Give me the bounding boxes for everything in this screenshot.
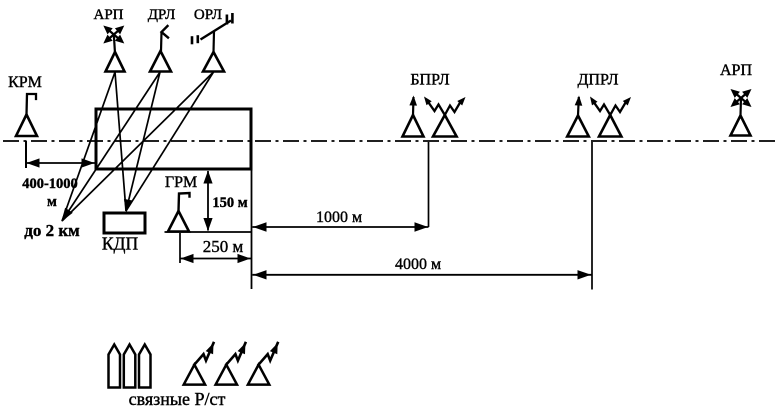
label АРП (left) [93, 7, 123, 23]
label 400-1000 [22, 176, 78, 192]
svg-text:связные Р/ст: связные Р/ст [129, 389, 226, 409]
DPRL radio station (triangle with zigzag arrows) [590, 97, 631, 137]
baseline under GRM [165, 231, 252, 233]
ORL radar antenna [192, 13, 232, 72]
svg-text:400-1000: 400-1000 [22, 176, 78, 192]
BPRL radio station (triangle with zigzag arrows) [424, 97, 466, 137]
svg-text:ОРЛ: ОРЛ [194, 7, 222, 23]
communication mast 3 [139, 345, 151, 388]
svg-text:КДП: КДП [102, 234, 139, 254]
label 150 м [212, 195, 247, 211]
GRM glide-path antenna [168, 193, 190, 232]
svg-text:4000 м: 4000 м [395, 256, 441, 273]
communication mast 2 [124, 345, 136, 388]
label ДРЛ [148, 7, 176, 23]
wire ОРЛ to КДП [126, 72, 214, 211]
arrowhead at КДП roof [124, 199, 133, 212]
dimension arrow 150 м [203, 171, 212, 232]
label до 2 км [24, 221, 80, 240]
label КРМ [8, 74, 42, 91]
svg-text:м: м [47, 194, 57, 210]
svg-text:БПРЛ: БПРЛ [410, 72, 449, 89]
svg-text:АРП: АРП [93, 7, 123, 23]
arrowhead at 2km point [62, 208, 73, 222]
dimension arrow 400-1000 м [26, 158, 95, 167]
svg-text:ДПРЛ: ДПРЛ [577, 72, 618, 89]
extension line below GRM [179, 233, 181, 263]
DPRL marker beacon (triangle with up arrow) [567, 96, 589, 137]
runway centerline (dash-dot) [3, 140, 775, 142]
label 250 м [203, 237, 244, 256]
DRL radar antenna [150, 26, 171, 72]
svg-text:КРМ: КРМ [8, 74, 42, 91]
label 4000 м [395, 256, 441, 273]
wire ДРЛ to 2km point [62, 72, 160, 221]
label связные Р/ст [129, 389, 226, 409]
label 1000 м [316, 209, 362, 226]
DPRL extension line [591, 142, 593, 290]
svg-text:ДРЛ: ДРЛ [148, 7, 176, 23]
legend radio station 1 [184, 343, 214, 385]
runway-end extension line [251, 169, 253, 289]
label ОРЛ [194, 7, 222, 23]
legend radio station 2 [216, 343, 246, 385]
label м (under 400-1000) [47, 194, 57, 210]
label АРП (right) [720, 62, 752, 79]
runway rectangle [96, 109, 251, 169]
legend radio station 3 [248, 343, 278, 385]
ARP direction-finder antenna (left) [103, 26, 124, 72]
label БПРЛ [410, 72, 449, 89]
ARP direction-finder antenna (right) [731, 89, 752, 136]
label КДП [102, 234, 139, 254]
svg-text:АРП: АРП [720, 62, 752, 79]
dimension arrow 4000 м [253, 270, 592, 279]
KRM antenna symbol [16, 94, 37, 136]
wire АРП to КДП [115, 72, 126, 211]
svg-text:1000 м: 1000 м [316, 209, 362, 226]
communication mast 1 [109, 345, 121, 388]
BPRL extension line [428, 142, 430, 227]
label ДПРЛ [577, 72, 618, 89]
BPRL marker beacon (triangle with up arrow) [403, 96, 424, 137]
svg-text:250 м: 250 м [203, 237, 244, 256]
KRM extension tick below centerline [25, 141, 27, 168]
svg-text:150 м: 150 м [212, 195, 247, 211]
dimension arrow 1000 м [253, 222, 429, 231]
label ГРМ [165, 174, 197, 191]
dimension arrow 250 м [180, 254, 251, 263]
svg-text:до 2 км: до 2 км [24, 221, 80, 240]
wire ОРЛ to 2km point [62, 72, 214, 221]
wire ДРЛ to КДП [126, 72, 160, 211]
wire АРП to 2km point [62, 72, 115, 221]
svg-text:ГРМ: ГРМ [165, 174, 197, 191]
KDP building rectangle [104, 213, 145, 233]
